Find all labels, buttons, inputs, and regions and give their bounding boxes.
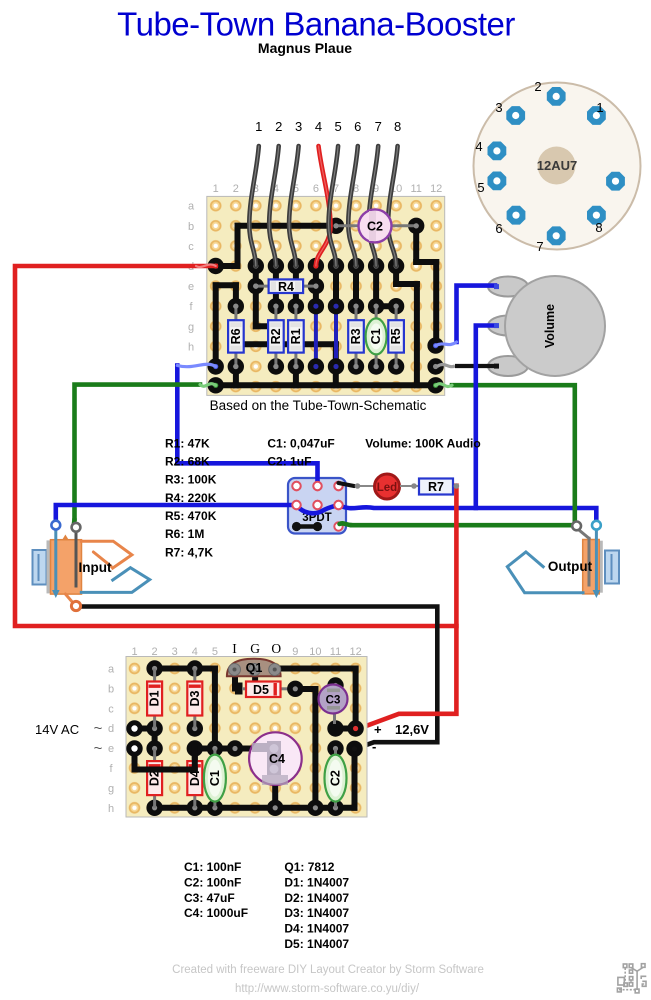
pad d3 [248, 258, 264, 274]
tube wire 5 [329, 146, 339, 266]
trace row f AC2 [135, 767, 195, 773]
tube socket 12AU7 [474, 83, 641, 250]
svg-text:-: - [372, 739, 376, 754]
svg-text:a: a [108, 664, 115, 676]
svg-text:h: h [108, 803, 114, 815]
bottom component list caps [184, 860, 248, 920]
svg-text:D5: 1N4007: D5: 1N4007 [284, 937, 349, 951]
switch 3PDT [288, 478, 346, 534]
LED lead wire right [400, 483, 419, 489]
pad f5 [288, 298, 304, 314]
pad b11 [408, 218, 424, 234]
bottom component list semis [284, 860, 349, 951]
trace d2-e2 [152, 729, 158, 749]
pad a2 [146, 660, 162, 676]
blue wire stub h12 [436, 342, 457, 346]
resistor R4 [253, 279, 316, 294]
trace row b bus [238, 223, 337, 229]
svg-text:R7: R7 [428, 480, 444, 494]
trace e12-h12 [352, 749, 358, 808]
pad f4 [268, 298, 284, 314]
svg-text:9: 9 [292, 646, 298, 658]
svg-text:Volume: 100K Audio: Volume: 100K Audio [365, 436, 480, 450]
red wire +12.6V rail [15, 266, 456, 626]
input ring terminal [72, 523, 81, 532]
green wire j12 to switch [352, 385, 575, 525]
pad h8 [267, 800, 283, 816]
LED lead wire left [355, 483, 374, 489]
pad j12 [427, 377, 443, 393]
pad d11 [327, 720, 343, 736]
blue wire h12 to volume lug1 [457, 286, 496, 342]
pad d9 [368, 258, 384, 274]
wire labels 1-8 [255, 119, 401, 134]
trace row j bus [216, 382, 436, 388]
trace over D2 redraw [135, 767, 195, 773]
capacitor C2 [336, 209, 416, 242]
svg-text:5: 5 [477, 180, 484, 195]
capacitor C1 [204, 749, 226, 808]
svg-text:h: h [188, 341, 194, 353]
svg-text:6: 6 [495, 221, 502, 236]
pad h5 [207, 800, 223, 816]
pad b11 [327, 677, 343, 693]
svg-text:Input: Input [79, 560, 112, 575]
pad e12 [346, 741, 362, 757]
bottom board column labels [131, 646, 361, 658]
svg-text:D2: 1N4007: D2: 1N4007 [284, 891, 349, 905]
trace d10 down [393, 266, 399, 284]
trace col7 h-i [333, 344, 339, 366]
svg-text:G: G [250, 641, 260, 656]
socket pin 7 [547, 226, 566, 245]
pad i4 [268, 358, 284, 374]
pad d1 [208, 258, 224, 274]
svg-text:c: c [188, 241, 194, 253]
svg-text:c: c [108, 703, 114, 715]
blue wire to volume lug2 [476, 326, 495, 509]
svg-text:12AU7: 12AU7 [537, 158, 577, 173]
svg-text:R3: 100K: R3: 100K [165, 473, 217, 487]
tube wire 8 [388, 146, 398, 266]
svg-text:C1: C1 [208, 770, 222, 786]
jumper f7-i7 [334, 306, 338, 366]
svg-text:D4: 1N4007: D4: 1N4007 [284, 922, 349, 936]
svg-text:+: + [374, 722, 382, 737]
socket pin 3 [506, 106, 525, 125]
pad f6 [308, 298, 324, 314]
svg-text:D3: D3 [188, 690, 202, 706]
tube wire 4 [316, 146, 331, 266]
trace row h bus [155, 805, 355, 811]
switch lugs overlay [292, 482, 342, 509]
svg-text:C2: C2 [367, 220, 383, 234]
red wire stub d1 [196, 264, 216, 267]
trace row h [240, 341, 336, 347]
socket pin 8 [587, 206, 606, 225]
resistor R5 [388, 306, 404, 366]
pad d5 [288, 258, 304, 274]
tube wire 1 [249, 146, 259, 266]
svg-text:3: 3 [495, 100, 502, 115]
svg-text:a: a [188, 201, 195, 213]
svg-text:10: 10 [309, 646, 321, 658]
pad h4 [187, 800, 203, 816]
svg-text:O: O [271, 641, 281, 656]
component list caps [267, 436, 334, 468]
input sleeve terminal [71, 601, 80, 610]
trace a7-b7 [252, 669, 258, 683]
trace i5-j [293, 367, 299, 386]
trace up to e4 [192, 749, 198, 770]
svg-text:D1: 1N4007: D1: 1N4007 [284, 875, 349, 889]
capacitor C1 [366, 306, 387, 366]
trace col2 e-f [233, 285, 239, 306]
pad f8 [348, 298, 364, 314]
green wire stub j12 [436, 384, 452, 387]
svg-text:C2: 100nF: C2: 100nF [184, 875, 241, 889]
svg-text:C3: C3 [326, 695, 341, 707]
svg-text:e: e [188, 281, 194, 293]
black stub switch to LED wire [339, 483, 355, 486]
pad f10 [388, 298, 404, 314]
trace b11 down [413, 226, 419, 262]
svg-text:11: 11 [330, 646, 341, 658]
pad e4 [187, 740, 203, 756]
output ground rod 2 [588, 538, 591, 585]
blue wire switch to output tip [339, 505, 596, 521]
svg-text:3: 3 [295, 119, 302, 134]
trace col9 d-f [373, 266, 379, 306]
capacitor C2 [325, 749, 347, 808]
pad b7 [328, 218, 344, 234]
pad d7 [328, 258, 344, 274]
svg-text:12,6V: 12,6V [395, 722, 429, 737]
svg-text:Tube-Town Banana-Booster: Tube-Town Banana-Booster [117, 6, 515, 43]
svg-text:Output: Output [548, 559, 593, 574]
input tip contact arm [93, 552, 111, 566]
pad h11 [327, 800, 343, 816]
IGO labels [232, 641, 281, 656]
socket pin 5 [488, 172, 507, 191]
svg-text:R5: R5 [389, 328, 403, 344]
resistor R6 [228, 306, 244, 366]
svg-text:1: 1 [255, 119, 262, 134]
trace jog col10-col11 [396, 281, 417, 287]
top board column labels [213, 183, 443, 195]
svg-text:e: e [108, 743, 114, 755]
pad e11 [327, 740, 343, 756]
socket pin 4 [488, 142, 507, 161]
blue wire input tip to switch [56, 505, 295, 521]
red wire LED feed [357, 486, 457, 730]
svg-text:b: b [108, 683, 114, 695]
svg-text:C1: 0,047uF: C1: 0,047uF [267, 436, 334, 450]
bottom board row labels [108, 664, 115, 815]
input sleeve lead [65, 594, 74, 604]
perfboard 1 (tube board) [207, 196, 445, 395]
pad h2 [146, 800, 162, 816]
svg-text:6: 6 [354, 119, 361, 134]
svg-text:2: 2 [275, 119, 282, 134]
pad i5 [288, 358, 304, 374]
svg-text:7: 7 [536, 239, 543, 254]
green wire j1 to input ground [75, 385, 201, 519]
blue wire across switch [297, 505, 339, 513]
trace row g under R2 [256, 323, 270, 329]
pad e2 [146, 740, 162, 756]
svg-text:~: ~ [94, 740, 103, 757]
pad e6 [308, 278, 324, 294]
svg-text:Q1: 7812: Q1: 7812 [284, 860, 334, 874]
svg-text:1: 1 [596, 100, 603, 115]
svg-text:D1: D1 [148, 690, 162, 706]
pad d4 [268, 258, 284, 274]
volume lug dots overlay [494, 284, 499, 369]
svg-text:8: 8 [595, 220, 602, 235]
diode D4 [187, 749, 202, 808]
svg-text:6: 6 [313, 183, 319, 195]
pad d12 [347, 720, 363, 736]
svg-text:R4: 220K: R4: 220K [165, 491, 217, 505]
trace f9-f10 [376, 303, 396, 309]
tube wire 3 [289, 146, 299, 266]
trace col8 d-f [353, 266, 359, 306]
input ring contact (blue) [81, 568, 149, 593]
pad f7 [328, 298, 344, 314]
pad d8 [348, 258, 364, 274]
svg-text:C1: 100nF: C1: 100nF [184, 860, 241, 874]
svg-text:14V AC: 14V AC [35, 722, 79, 737]
pad e1 AC [126, 740, 142, 756]
svg-text:4: 4 [315, 119, 322, 134]
svg-text:12: 12 [349, 646, 361, 658]
diode D2 [147, 749, 162, 808]
trace jog to col12 [416, 259, 436, 265]
diode D1 [147, 669, 162, 729]
trace col7 d-f [333, 266, 339, 306]
+12.6V label [374, 722, 429, 737]
svg-text:4: 4 [475, 139, 482, 154]
svg-text:d: d [108, 723, 114, 735]
pad e3 [248, 278, 264, 294]
svg-text:Created with freeware DIY Layo: Created with freeware DIY Layout Creator… [172, 964, 484, 976]
trace col3 d-g [253, 266, 259, 326]
svg-text:R6: 1M: R6: 1M [165, 527, 204, 541]
output ground rod [577, 528, 589, 538]
AC input labels [94, 720, 103, 757]
pad h10 [307, 800, 323, 816]
svg-text:Led: Led [377, 482, 397, 494]
pad f2 [228, 298, 244, 314]
pad d4 [187, 720, 203, 736]
svg-text:11: 11 [410, 183, 421, 195]
R7 right lead dot [454, 483, 460, 489]
svg-text:4: 4 [192, 646, 198, 658]
diode D3 [187, 669, 202, 729]
tube wire 7 [369, 146, 379, 266]
tube wire 2 [269, 146, 279, 266]
pad d10 [388, 258, 404, 274]
storm software logo [617, 964, 646, 993]
svg-text:C1: C1 [369, 328, 383, 344]
svg-text:1: 1 [213, 183, 219, 195]
green wire stub j1 [200, 384, 216, 387]
svg-text:C2: C2 [329, 770, 343, 786]
svg-text:C4: C4 [269, 752, 285, 766]
resistor R3 [348, 306, 364, 366]
pad i7 [328, 358, 344, 374]
svg-text:5: 5 [334, 119, 341, 134]
trace col4 d-f [273, 266, 279, 306]
output jack [583, 540, 619, 594]
svg-text:2: 2 [534, 79, 541, 94]
trace i7-j [333, 367, 339, 386]
capacitor C4 [249, 732, 302, 785]
pad i1 [208, 358, 224, 374]
trace a6-b6 [232, 669, 238, 689]
output ring contact (blue) [507, 552, 583, 593]
input tip contact (orange) [81, 541, 132, 568]
pad i12 [427, 358, 443, 374]
trace e1-e2 [216, 282, 236, 288]
pad a4 [187, 660, 203, 676]
trace col5 a-e [212, 669, 218, 749]
svg-text:R2: R2 [269, 328, 283, 344]
resistor R2 [268, 306, 284, 366]
input tip rod [52, 529, 60, 598]
socket pin 9 [606, 172, 625, 191]
svg-text:Q1: Q1 [246, 661, 263, 675]
pad i8 [348, 358, 364, 374]
blue wire stub i1 [177, 364, 215, 366]
resistor R1 [288, 306, 304, 366]
trace e1 down [132, 749, 138, 770]
tube wire 6 [348, 146, 358, 266]
svg-text:R7: 4,7K: R7: 4,7K [165, 545, 213, 559]
pad d1 AC [126, 720, 142, 736]
svg-text:C4: 1000uF: C4: 1000uF [184, 906, 248, 920]
socket pin 1 [587, 106, 606, 125]
svg-text:5: 5 [212, 646, 218, 658]
pad f9 [368, 298, 384, 314]
svg-text:7: 7 [375, 119, 382, 134]
output ground terminal [572, 522, 581, 531]
svg-text:g: g [188, 321, 194, 333]
output tip terminal [592, 521, 601, 530]
trace col11 down to j bus [414, 284, 420, 385]
LED [375, 474, 400, 499]
svg-text:1: 1 [131, 646, 137, 658]
pad j1 [208, 377, 224, 393]
pad d6 [308, 258, 324, 274]
black wire volume lug3 [437, 365, 495, 367]
svg-text:D5: D5 [253, 683, 269, 697]
trace a8-a12 [275, 666, 355, 672]
svg-text:http://www.storm-software.co.y: http://www.storm-software.co.yu/diy/ [235, 983, 420, 995]
svg-text:C2: 1uF: C2: 1uF [267, 455, 311, 469]
svg-text:~: ~ [94, 720, 103, 737]
svg-text:R6: R6 [229, 328, 243, 344]
trace col12 down to h12 [433, 262, 439, 346]
input jack [33, 535, 82, 595]
input ring rod [75, 530, 78, 586]
socket pin 2 [547, 87, 566, 106]
input tip terminal [51, 521, 60, 530]
svg-text:R1: 47K: R1: 47K [165, 436, 210, 450]
resistor R7 [419, 479, 453, 495]
diode D5 [235, 682, 295, 698]
transistor Q1 (7812 regulator) [227, 659, 281, 677]
svg-text:2: 2 [152, 646, 158, 658]
trace i2-j [233, 367, 239, 386]
capacitor C3 [319, 685, 348, 725]
svg-text:b: b [188, 221, 194, 233]
jumper f6-i6 [314, 306, 318, 366]
svg-text:D3: 1N4007: D3: 1N4007 [284, 906, 349, 920]
trace col2 riser d-b [235, 226, 241, 266]
output tip rod [593, 529, 601, 598]
trace col6 d-f [313, 266, 319, 306]
svg-text:R5: 470K: R5: 470K [165, 509, 217, 523]
pad e6 [227, 740, 243, 756]
svg-text:3: 3 [172, 646, 178, 658]
pad b9 [287, 681, 303, 697]
trace d1-d2 [135, 726, 155, 732]
trace C4 to h bus [272, 785, 278, 808]
trace b9-b10 [295, 686, 315, 692]
svg-text:I: I [232, 641, 237, 656]
svg-text:C3: 47uF: C3: 47uF [184, 891, 235, 905]
pad i6 [308, 358, 324, 374]
pad i9 [368, 358, 384, 374]
black wire input sleeve to power board [80, 607, 437, 749]
svg-text:g: g [108, 783, 114, 795]
svg-text:R4: R4 [278, 280, 294, 294]
svg-text:Volume: Volume [543, 304, 557, 348]
trace col12 a-d [353, 669, 359, 729]
trace a2-a5 [155, 666, 215, 672]
svg-text:Magnus Plaue: Magnus Plaue [258, 40, 352, 56]
svg-text:Based on the Tube-Town-Schemat: Based on the Tube-Town-Schematic [210, 398, 427, 413]
svg-text:12: 12 [430, 183, 442, 195]
svg-text:8: 8 [394, 119, 401, 134]
trace e4-e6 [195, 746, 249, 752]
trace d11-d12 [336, 726, 356, 732]
svg-text:R2: 68K: R2: 68K [165, 455, 210, 469]
pad d2 [146, 720, 162, 736]
svg-text:2: 2 [233, 183, 239, 195]
pad i2 [228, 358, 244, 374]
green wire stub switch [340, 523, 353, 525]
pad i10 [388, 358, 404, 374]
green wire stub input [74, 519, 76, 527]
top board row labels [188, 201, 195, 354]
perfboard 2 (power supply) [126, 657, 367, 818]
trace d1-col2 [216, 263, 238, 269]
component list resistors [165, 436, 217, 559]
svg-text:R3: R3 [349, 328, 363, 344]
pad h12 [427, 337, 443, 353]
potentiometer Volume [488, 276, 605, 376]
trace col1 i-e [213, 285, 219, 366]
blue wire i1 to input [177, 366, 317, 485]
trace col5 d-f [293, 266, 299, 306]
socket pin 6 [507, 206, 526, 225]
svg-text:R1: R1 [289, 328, 303, 344]
trace col10 b-h [312, 689, 318, 808]
pad e5 [207, 740, 223, 756]
